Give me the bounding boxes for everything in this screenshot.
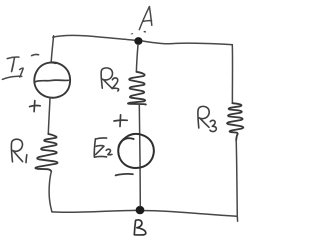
wire left drop from corner to source I1 — [51, 36, 53, 62]
minus sign below E2 — [116, 174, 133, 175]
minus sign above I1 — [32, 54, 39, 55]
wire bottom-right (node B to right corner) — [144, 211, 238, 217]
wire bottom-left (corner to node B) — [52, 210, 137, 212]
plus sign below I1 — [30, 101, 41, 112]
resistor R3 zigzag — [227, 103, 243, 140]
wire node A to resistor R2 — [136, 45, 138, 72]
wire from R1 to bottom-left corner — [49, 172, 52, 212]
source I1 internal wavy line — [35, 80, 68, 82]
node B dot — [136, 206, 145, 214]
wire from source I1 to resistor R1 — [48, 98, 50, 134]
wire top-right segment (node A to right corner) — [140, 41, 232, 45]
label R2 — [101, 68, 119, 91]
label R3 — [198, 106, 216, 131]
resistor R1 zigzag — [35, 134, 57, 172]
source I1 circle — [34, 62, 70, 97]
plus sign above E2 — [114, 115, 127, 127]
label E2 — [94, 138, 112, 157]
label I1 — [2, 57, 23, 79]
wire R2 through E2 to node B — [139, 105, 140, 206]
label B — [134, 220, 145, 235]
source E2 circle — [118, 134, 154, 168]
label R1 — [11, 139, 26, 162]
wire top-left segment (corner to node A) — [53, 35, 137, 40]
source E2 pen-start curl (top-left) — [119, 138, 134, 147]
wire R3 to bottom-right corner (with overshoot) — [236, 140, 237, 221]
resistor R2 zigzag — [128, 72, 146, 105]
node A dot — [134, 37, 142, 45]
label A — [131, 7, 152, 34]
wire right vertical (corner to R3) — [231, 45, 233, 104]
